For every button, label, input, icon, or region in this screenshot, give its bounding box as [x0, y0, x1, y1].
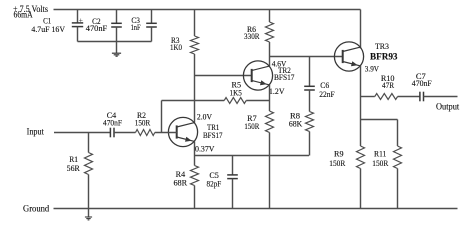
- label 66mA: [14, 9, 34, 19]
- label R11: [374, 149, 386, 159]
- wire to R9: [360, 120, 362, 147]
- wire TR1 collector to TR2 base: [195, 75, 252, 77]
- label R2: [137, 110, 146, 120]
- label TR2 type BFS17: [274, 72, 295, 82]
- svg-text:150R: 150R: [372, 158, 388, 168]
- svg-text:2.0V: 2.0V: [197, 111, 213, 121]
- label R11 value: [372, 158, 388, 168]
- label TR1 emitter voltage 0.37V: [195, 144, 215, 154]
- svg-text:150R: 150R: [135, 117, 151, 127]
- wire rail to R3: [194, 10, 196, 37]
- svg-text:22nF: 22nF: [319, 89, 335, 99]
- svg-text:1.2V: 1.2V: [269, 86, 285, 96]
- resistor R5: [224, 98, 246, 104]
- svg-text:+: +: [79, 15, 83, 24]
- label R1 value: [67, 163, 80, 173]
- svg-text:0.37V: 0.37V: [195, 144, 215, 154]
- wire output segment: [361, 96, 375, 98]
- label TR1 type BFS17: [203, 130, 223, 140]
- wire C7 to output: [424, 96, 458, 98]
- wire R3 to TR1 collector: [194, 54, 196, 123]
- label C6 value: [319, 89, 335, 99]
- wire rail to C1: [77, 10, 79, 23]
- label C5 value: [207, 178, 222, 188]
- resistor R3: [191, 36, 199, 54]
- wire rail to R6: [269, 10, 271, 23]
- wire TR3 emitter down: [360, 66, 362, 120]
- svg-text:1K5: 1K5: [230, 88, 243, 98]
- svg-text:Ground: Ground: [23, 203, 49, 214]
- svg-text:66mA: 66mA: [14, 9, 34, 19]
- label C2 value: [86, 23, 108, 33]
- ground symbol under C2: [112, 42, 121, 57]
- capacitor C3: [146, 23, 157, 27]
- wire input: [54, 132, 110, 134]
- label C3: [131, 15, 140, 25]
- wire R11 to ground rail: [397, 169, 399, 209]
- label C5: [209, 170, 219, 180]
- label TR2: [278, 65, 291, 75]
- wire emitter wire to C5: [232, 156, 234, 175]
- label R9: [334, 149, 344, 159]
- label C7 value: [412, 78, 432, 88]
- resistor R9: [357, 146, 365, 169]
- wire TR2 emitter down: [269, 85, 271, 111]
- svg-text:1nF: 1nF: [131, 22, 141, 32]
- wire TR1 emitter horizontal: [195, 155, 310, 157]
- label TR3 type BFR93: [370, 52, 398, 62]
- wire R9 to ground rail: [360, 169, 362, 209]
- label C4: [107, 110, 117, 120]
- label C3 value: [131, 22, 141, 32]
- capacitor C2: [111, 23, 122, 27]
- wire R2 to TR1 base: [155, 132, 177, 134]
- label C7: [416, 71, 426, 81]
- wire R6 to TR2 collector node: [269, 42, 271, 66]
- wire C1 to cap bottom rail: [77, 27, 79, 42]
- wire TR1 emitter down: [194, 141, 196, 155]
- svg-text:56R: 56R: [67, 163, 80, 173]
- wire C4 to R2: [114, 132, 136, 134]
- wire R4 top: [194, 156, 196, 166]
- label R7 value: [244, 121, 259, 131]
- wire C5 to ground rail: [232, 179, 234, 209]
- label C4 value: [103, 117, 122, 127]
- capacitor C4: [110, 128, 114, 138]
- label TR2 emitter voltage 1.2V: [269, 86, 285, 96]
- wire C6 to R8: [309, 90, 311, 112]
- svg-text:Output: Output: [436, 102, 459, 113]
- svg-text:470nF: 470nF: [412, 78, 432, 88]
- transistor TR2: [243, 61, 272, 90]
- svg-text:TR3: TR3: [375, 41, 390, 51]
- label Output: [436, 102, 459, 113]
- svg-text:BFR93: BFR93: [370, 52, 398, 62]
- wire capacitor bottom rail: [78, 41, 152, 43]
- svg-text:1K0: 1K0: [170, 42, 182, 52]
- label R8 value: [289, 119, 303, 129]
- label C6: [320, 80, 330, 90]
- wire TR1 base node up to R5: [161, 101, 163, 133]
- wire R5 to TR2 emitter line: [246, 100, 269, 102]
- label R7: [247, 113, 257, 123]
- label R2 value: [135, 117, 151, 127]
- wire R10 to C7: [398, 96, 420, 98]
- resistor R11: [394, 146, 402, 169]
- wire TR3 base node to C6: [309, 57, 311, 87]
- label Ground: [23, 203, 49, 214]
- svg-text:150R: 150R: [329, 158, 345, 168]
- svg-text:47R: 47R: [382, 80, 394, 90]
- label TR3 emitter voltage 3.9V: [365, 64, 380, 74]
- wire C2 to cap bottom rail: [116, 27, 118, 42]
- svg-text:150R: 150R: [244, 121, 259, 131]
- resistor R8: [306, 112, 314, 132]
- label R4 value: [173, 178, 187, 188]
- label R10 value: [382, 80, 394, 90]
- power rail +7.5V wire: [54, 9, 361, 11]
- capacitor C5: [227, 175, 238, 179]
- label TR2 collector voltage 4.6V: [272, 58, 287, 68]
- label TR1: [207, 122, 219, 132]
- label C1: [43, 16, 51, 26]
- wire input node to R1: [88, 133, 90, 153]
- wire rail to TR3 collector: [360, 10, 362, 49]
- resistor R7: [266, 111, 274, 133]
- svg-text:470nF: 470nF: [86, 23, 108, 33]
- wire TR2 collector to TR3 base: [270, 56, 343, 58]
- ground symbol under R1: [85, 209, 92, 220]
- label R9 value: [329, 158, 345, 168]
- label R6 value: [244, 31, 260, 41]
- svg-text:330R: 330R: [244, 31, 260, 41]
- svg-text:Input: Input: [27, 127, 45, 138]
- ground rail wire: [54, 208, 458, 210]
- wire R1 to ground rail: [88, 175, 90, 209]
- label Input: [27, 127, 45, 138]
- label R1: [69, 154, 78, 164]
- capacitor C1: [72, 15, 83, 26]
- label R8: [290, 111, 301, 121]
- resistor R2: [136, 130, 155, 136]
- svg-text:68K: 68K: [289, 119, 303, 129]
- transistor TR3: [334, 42, 363, 71]
- wire R4 to ground rail: [194, 186, 196, 209]
- resistor R6: [266, 22, 274, 42]
- wire C3 to cap bottom rail: [151, 27, 153, 42]
- svg-text:470nF: 470nF: [103, 117, 122, 127]
- resistor R1: [85, 153, 93, 175]
- capacitor C7: [420, 92, 424, 102]
- wire R8 to TR1 emitter wire: [309, 132, 311, 156]
- wire R9 R11 top: [361, 119, 398, 121]
- resistor R4: [191, 166, 199, 186]
- label R6: [247, 24, 257, 34]
- transistor TR1: [168, 117, 197, 146]
- wire R7 to ground rail: [269, 133, 271, 209]
- label R5: [232, 80, 242, 90]
- label C2: [92, 16, 101, 26]
- wire rail to C2: [116, 10, 118, 24]
- svg-text:BFS17: BFS17: [274, 72, 295, 82]
- label R5 value: [230, 88, 243, 98]
- label R4: [176, 169, 186, 179]
- capacitor C6: [304, 86, 315, 90]
- label TR3: [375, 41, 390, 51]
- label +7.5 Volts: [13, 5, 48, 15]
- svg-text:3.9V: 3.9V: [365, 64, 380, 74]
- svg-text:4.7uF 16V: 4.7uF 16V: [31, 24, 65, 34]
- svg-text:BFS17: BFS17: [203, 130, 223, 140]
- wire R5 left segment: [162, 100, 225, 102]
- label C1 value: [31, 24, 65, 34]
- wire rail to C3: [151, 10, 153, 24]
- svg-text:82pF: 82pF: [207, 178, 222, 188]
- resistor R10: [375, 94, 398, 100]
- svg-text:68R: 68R: [173, 178, 187, 188]
- label TR1 collector voltage 2.0V: [197, 111, 213, 121]
- wire to R11: [397, 120, 399, 147]
- label R3: [171, 35, 180, 45]
- label R3 value: [170, 42, 182, 52]
- label R10: [381, 73, 395, 83]
